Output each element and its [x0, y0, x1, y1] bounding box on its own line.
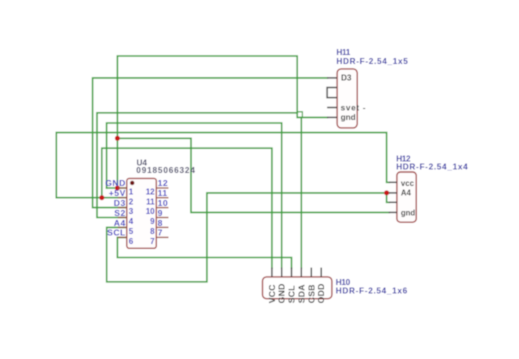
wire net VCC branch to H10 pin1 — [102, 148, 272, 268]
svg-text:CSB: CSB — [306, 284, 316, 303]
H12 pin 2 stub — [389, 192, 397, 194]
junction dot GND at U4 pin1 — [115, 186, 120, 191]
U4 pin 10 stub — [156, 207, 168, 209]
IC U4 body — [127, 178, 157, 248]
svg-text:gnd: gnd — [341, 113, 356, 122]
svg-text:ODD: ODD — [316, 283, 326, 303]
svg-text:11: 11 — [158, 188, 168, 198]
svg-text:A4: A4 — [401, 189, 412, 198]
wire net SDA vertical to H10 pin4 — [300, 118, 302, 269]
junction dot A4 at H12 — [384, 190, 389, 195]
svg-text:7: 7 — [150, 237, 155, 246]
H10 pin 4 stub — [300, 268, 302, 277]
svg-text:10: 10 — [146, 207, 155, 216]
wire net A4 lower loop — [107, 193, 390, 282]
svg-text:09185066324: 09185066324 — [136, 166, 195, 175]
U4 pin 8 stub — [156, 226, 168, 228]
U4 pin 3 stub — [118, 207, 127, 209]
H10 pin 1 stub — [271, 268, 273, 277]
U4 pin 9 stub — [156, 217, 168, 219]
svg-text:VCC: VCC — [267, 284, 277, 303]
wire net GND branch to H10 pin2 — [107, 123, 282, 268]
svg-text:HDR-F-2.54_1x4: HDR-F-2.54_1x4 — [396, 163, 468, 172]
svg-text:10: 10 — [158, 198, 169, 208]
svg-text:H11: H11 — [336, 48, 350, 57]
svg-text:12: 12 — [158, 178, 169, 188]
U4 pin 6 stub — [118, 236, 127, 238]
H11 pin 4 stub — [327, 107, 337, 109]
wire net GND branch to H12 pin4 — [117, 138, 389, 212]
svg-text:+5V: +5V — [109, 188, 126, 198]
svg-text:SCL: SCL — [107, 228, 126, 238]
H11 pin 5 stub — [327, 116, 337, 118]
U4 pin 7 stub — [156, 236, 168, 238]
wire net SCL — [117, 237, 291, 268]
U4 pin 4 stub — [118, 217, 127, 219]
header H12 body — [397, 172, 416, 222]
svg-text:3: 3 — [129, 207, 134, 216]
svg-text:D3: D3 — [341, 73, 352, 82]
H11 pin 1 stub — [327, 77, 337, 79]
junction dot +5V — [99, 195, 104, 200]
svg-text:HDR-F-2.54_1x5: HDR-F-2.54_1x5 — [336, 57, 408, 66]
svg-text:1: 1 — [129, 187, 134, 196]
U4 pin 1 stub — [118, 187, 127, 189]
wire net D3 — [93, 78, 328, 208]
svg-text:2: 2 — [129, 197, 134, 206]
svg-text:9: 9 — [150, 217, 155, 226]
wire net GND vertical main — [117, 56, 327, 188]
svg-text:vcc: vcc — [401, 179, 415, 188]
H10 pin 2 stub — [281, 268, 283, 277]
svg-text:6: 6 — [129, 237, 134, 246]
H12 pin 4 stub — [389, 211, 397, 213]
wire net VCC horizontal top — [56, 133, 389, 198]
svg-text:12: 12 — [146, 187, 155, 196]
svg-text:11: 11 — [146, 197, 155, 206]
svg-text:svet -: svet - — [341, 104, 367, 113]
H12 pin 3 stub — [389, 201, 397, 203]
wire net A4 link H12 pin3 — [387, 193, 390, 202]
header H11 body — [337, 69, 357, 128]
svg-text:GND: GND — [277, 283, 287, 303]
U4 pin 12 stub — [156, 187, 168, 189]
header H10 body — [263, 277, 332, 299]
node SDA wire-end square — [297, 112, 302, 118]
svg-text:8: 8 — [150, 227, 155, 236]
junction dot GND at (117,138) — [115, 136, 120, 141]
svg-text:S2: S2 — [114, 208, 126, 218]
H10 pin 6 stub — [320, 268, 322, 277]
svg-text:8: 8 — [158, 218, 163, 228]
svg-text:SDA: SDA — [296, 284, 306, 303]
U4 pin 2 stub — [118, 197, 127, 199]
svg-text:SCL: SCL — [287, 285, 297, 303]
svg-text:gnd: gnd — [401, 209, 416, 218]
IC U4 pin-1 marker dot — [130, 181, 134, 185]
svg-text:GND: GND — [105, 178, 126, 188]
H10 pin 5 stub — [310, 268, 312, 277]
svg-text:7: 7 — [158, 228, 163, 238]
H11 pins 2-3 shorting bracket — [327, 88, 337, 98]
svg-text:A4: A4 — [114, 218, 126, 228]
svg-text:HDR-F-2.54_1x6: HDR-F-2.54_1x6 — [336, 287, 408, 296]
H10 pin 3 stub — [291, 268, 293, 277]
wire net VCC +5V row to U4 pin2 — [56, 197, 127, 199]
U4 pin 5 stub — [118, 226, 127, 228]
svg-text:D3: D3 — [114, 198, 126, 208]
svg-text:4: 4 — [129, 217, 134, 226]
wire net GND U4 pin1 row — [107, 187, 127, 189]
wire net SDA/S2 — [97, 113, 297, 218]
U4 pin 11 stub — [156, 197, 168, 199]
H12 pin 1 stub — [389, 181, 397, 183]
svg-text:9: 9 — [158, 208, 163, 218]
svg-text:5: 5 — [129, 227, 134, 236]
